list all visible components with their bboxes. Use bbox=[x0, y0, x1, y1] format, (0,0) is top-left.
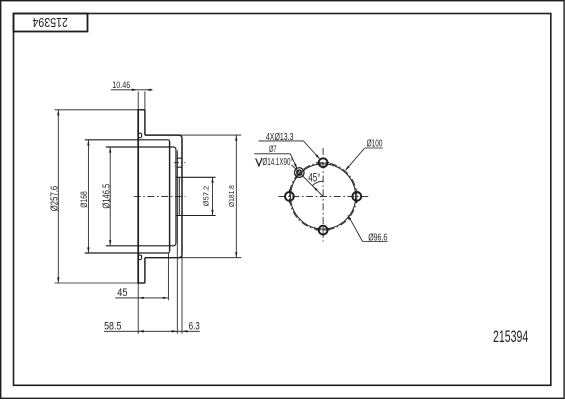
hat inner surface d168 lower bbox=[85, 251, 170, 253]
hat outer surface upper bbox=[145, 135, 182, 138]
right view horizontal centerline bbox=[279, 195, 370, 197]
svg-text:Ø181.8: Ø181.8 bbox=[227, 185, 236, 207]
svg-text:Ø7: Ø7 bbox=[269, 144, 277, 154]
bolt hole section upper edge bbox=[177, 157, 182, 159]
center bore lower surface bbox=[176, 215, 216, 217]
dimension 58.5 and 6.3 bbox=[104, 330, 200, 332]
bolt hole W center tick bbox=[288, 189, 290, 204]
svg-text:4XØ13.3: 4XØ13.3 bbox=[266, 132, 294, 143]
svg-text:Ø14.1X90°: Ø14.1X90° bbox=[262, 157, 293, 168]
bolt hole N center tick bbox=[316, 162, 331, 164]
hat interior face bbox=[169, 142, 171, 252]
bolt circle d100 (dash-dot) bbox=[289, 163, 356, 230]
svg-text:58.5: 58.5 bbox=[104, 320, 121, 332]
friction ring right face lower bbox=[144, 258, 146, 283]
svg-text:Ø257.6: Ø257.6 bbox=[50, 185, 61, 211]
dimension d181.8 bbox=[235, 135, 237, 258]
right view vertical centerline bbox=[322, 148, 324, 242]
hat inner surface d146.5 lower bbox=[106, 243, 176, 246]
retaining notch upper bbox=[139, 133, 142, 138]
bolt hole W d13.3 bbox=[285, 192, 294, 201]
locating hole d14.1 outer circle bbox=[295, 168, 305, 178]
dimension 10.46 bbox=[111, 89, 153, 91]
hat outer surface lower bbox=[145, 255, 182, 258]
dim ext line d181.8 top bbox=[179, 134, 242, 136]
friction ring right face upper bbox=[144, 110, 146, 135]
dim ext lines 10.46 bbox=[137, 92, 139, 110]
friction ring left face bbox=[137, 110, 139, 283]
svg-text:Ø57.2: Ø57.2 bbox=[201, 186, 210, 207]
diagonal centerline 45deg bbox=[292, 165, 324, 197]
svg-text:Ø146.5: Ø146.5 bbox=[102, 183, 113, 208]
dim ext line d257.6 bottom bbox=[55, 282, 139, 284]
title box top-left bbox=[14, 14, 88, 32]
dimension d168 bbox=[87, 140, 89, 253]
bolt hole E d13.3 bbox=[352, 192, 361, 201]
svg-text:10.46: 10.46 bbox=[112, 80, 130, 91]
center bore upper surface bbox=[176, 176, 216, 178]
retaining notch lower bbox=[139, 255, 142, 260]
hat inner surface d168 upper bbox=[85, 140, 170, 142]
friction ring top edge bbox=[137, 109, 145, 111]
dim ext line 58.5 right bbox=[176, 242, 178, 333]
dimension 45 bbox=[115, 297, 168, 299]
bolt hole N d13.3 bbox=[319, 158, 328, 167]
hat mounting face bbox=[181, 138, 183, 255]
svg-text:215394: 215394 bbox=[33, 15, 68, 30]
section view horizontal centerline bbox=[134, 195, 186, 197]
dim ext line d181.8 bottom bbox=[179, 257, 242, 259]
bolt hole E center tick bbox=[356, 189, 358, 204]
bolt hole section lower edge bbox=[177, 166, 182, 168]
circle d96.6 bbox=[291, 164, 356, 229]
dimension d257.6 bbox=[57, 110, 59, 283]
hat inner surface d146.5 upper bbox=[106, 147, 176, 150]
bolt hole S d13.3 bbox=[319, 226, 328, 235]
locating hole d7 inner circle bbox=[297, 170, 302, 175]
dim ext line d257.6 top bbox=[55, 109, 139, 111]
hat interior face 2 bbox=[175, 150, 177, 244]
dimension d146.5 bbox=[109, 147, 111, 246]
dim ext line 6.3 right bbox=[181, 255, 183, 334]
bore chamfer vertical bbox=[178, 177, 180, 215]
friction ring bottom edge bbox=[137, 282, 145, 284]
svg-text:Ø168: Ø168 bbox=[79, 191, 89, 208]
bolt hole S center tick bbox=[316, 229, 331, 231]
svg-text:215394: 215394 bbox=[493, 328, 528, 346]
svg-text:45: 45 bbox=[117, 287, 127, 299]
svg-text:6.3: 6.3 bbox=[189, 320, 200, 332]
dim ext line 45 right bbox=[167, 253, 169, 301]
svg-text:45°: 45° bbox=[308, 172, 320, 185]
bolt hole section centerline bbox=[174, 162, 185, 164]
countersink symbol bbox=[256, 158, 262, 166]
dim ext line 45 left bbox=[137, 283, 139, 334]
45 degree arc with arrow bbox=[312, 181, 323, 185]
hub pilot chamfer line bbox=[176, 151, 178, 243]
dimension d57.2 bbox=[212, 177, 214, 215]
